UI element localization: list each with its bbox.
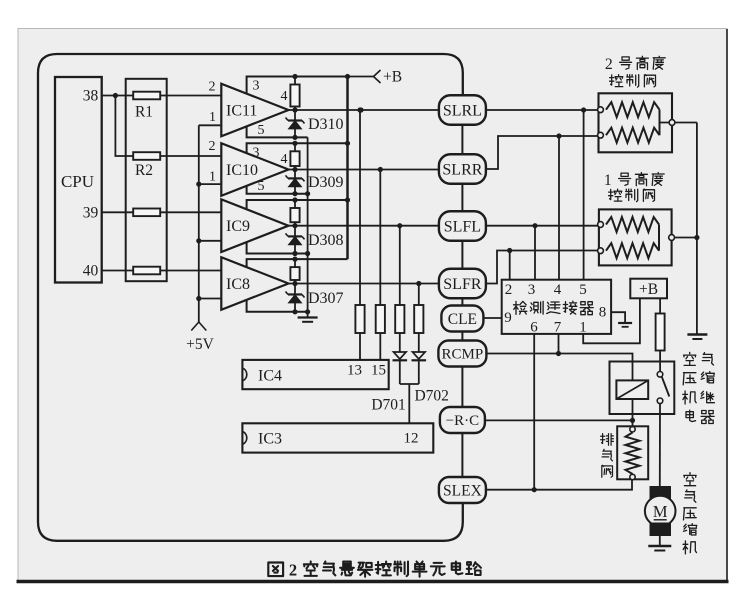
+B bus [346,77,349,260]
valve return line [696,123,698,335]
valve2 coil b [606,128,660,143]
IC10 pin2 label [209,139,216,154]
resistor network box [126,79,167,281]
wire pin6 down [533,334,535,490]
resistor col R15 [376,305,385,333]
IC10 supply box (pins 3/5) [247,143,348,193]
label +5V [186,336,214,353]
relay coil [616,380,648,399]
wire oval chain SLEX [461,433,463,477]
svg-text:1: 1 [604,172,612,189]
label 空气压缩机继电器 [683,352,715,423]
svg-text:IC3: IC3 [258,431,282,448]
junction IC11 output [292,107,297,112]
motor M [645,496,676,527]
wire pin7 down [558,334,560,354]
connector pin 2 label [505,282,513,298]
CPU label [61,172,94,191]
svg-text:R2: R2 [135,162,153,179]
wire pin38 down to R2 [115,96,133,157]
label D702 [414,388,448,405]
IC3 pin12 label [404,431,419,447]
junction IC10 output [292,167,297,172]
svg-text:+B: +B [639,281,658,298]
junction IC11 diode anode [292,135,297,140]
op-amp IC10 [221,143,288,196]
IC9 supply box (pins 3/5) [247,200,348,254]
wire col D701col down [399,226,401,305]
connector pin 7 label [554,320,562,336]
junction +B bus IC9 [345,197,350,202]
svg-text:IC11: IC11 [226,103,257,120]
svg-text:9: 9 [504,310,512,326]
wire +5V to IC11 in- [199,124,222,126]
svg-text:+5V: +5V [186,336,214,353]
svg-text:5: 5 [258,123,265,138]
wire relay to motor [659,404,661,486]
valve 1号高度控制阀 box [599,209,672,265]
svg-text:IC8: IC8 [226,276,250,293]
exhaust valve terminal bottom [630,474,635,479]
svg-text:8: 8 [599,305,607,321]
svg-text:RCMP: RCMP [442,347,484,363]
connector pin 5 label [579,282,587,298]
wire pin1 to +B box [583,298,640,343]
junction IC9 output [292,223,297,228]
wire diode merge to IC3 pin12 [400,384,419,423]
valve2 coil join [659,110,661,136]
label +B (top) [383,69,402,86]
svg-text:13: 13 [347,363,362,379]
zener diode D307 [286,284,305,312]
svg-text:D309: D309 [308,174,344,191]
wire IC11 out to SLRL [289,109,439,111]
junction coil- / -R·C [630,418,635,423]
svg-text:12: 12 [404,431,419,447]
wire RCMP to relay coil [487,354,633,381]
svg-text:2: 2 [505,282,513,298]
wire R1 to IC11 in+ [160,95,221,97]
junction IC8 resistor top [292,257,297,262]
wire SLEX to ECU corner [461,502,463,504]
svg-text:IC9: IC9 [226,218,250,235]
+5V symbol [191,322,206,331]
resistor col D702col [414,305,423,333]
svg-text:4: 4 [554,282,562,298]
wire R2 to IC10 in+ [160,155,221,157]
label 2号高度 [605,56,665,73]
wire col R13 down [359,110,361,305]
wire relay coil down [632,399,634,428]
svg-text:3: 3 [253,79,260,94]
connector pin 8 label [599,305,607,321]
svg-text:D701: D701 [371,397,405,414]
IC4 pin13 label [347,363,362,379]
caption 图2 空气悬架控制单元电路 [268,561,481,580]
svg-text:39: 39 [83,204,99,221]
IC9 pullup resistor (pin4) [290,200,299,226]
diode D701 [393,352,408,360]
node −R·C [440,407,485,433]
wire SLFL to valve1 [486,225,598,227]
IC11 pin2 label [209,80,216,95]
op-amp IC11 [221,84,288,137]
wire col to IC4 pin 15 [379,333,381,360]
label 控制阀 (valve1) [609,189,655,202]
label IC3 [258,431,282,448]
svg-text:4: 4 [281,89,288,104]
wire +5V to IC9 in- [199,240,222,242]
wire motor to ground [659,536,661,546]
wire col D702col down [418,284,420,306]
node +B box [630,279,667,299]
zener diode D309 [286,170,305,194]
junction pin7-RCMP [556,351,561,356]
wire pin4 up [558,136,560,280]
valve1 terminal a [598,222,604,228]
svg-text:D308: D308 [308,232,344,249]
zener diode D308 [286,226,305,254]
svg-text:SLEX: SLEX [443,482,482,499]
label D307 [308,290,344,307]
svg-text:7: 7 [554,320,562,336]
label R1 [135,104,153,121]
svg-text:2: 2 [209,80,216,95]
IC11 pin1 label [209,110,216,125]
IC10 pullup resistor (pin4) [290,143,299,169]
svg-text:D702: D702 [414,388,448,405]
wire pin3 up [534,226,536,280]
ground symbol (valves) [687,335,707,340]
wire pin38 to R1 [102,95,134,97]
svg-text:CPU: CPU [61,172,94,191]
IC10 pin4 label [281,152,288,167]
junction IC8 diode anode [292,309,297,314]
relay switch [657,372,669,404]
junction valve1 return [694,235,699,240]
wire R3 to IC9 in+ [160,211,221,213]
svg-text:R1: R1 [135,104,153,121]
wire +5V to IC8 in- [199,298,222,300]
svg-text:40: 40 [83,263,99,280]
svg-text:15: 15 [371,363,386,379]
junction IC11 resistor top [292,74,297,79]
ground symbol (motor) [648,546,671,551]
valve1 coil join [658,225,660,251]
node RCMP [438,341,486,367]
exhaust valve coil [626,433,640,475]
svg-text:1: 1 [209,110,216,125]
resistor col D701col [395,305,404,333]
wire oval chain RCMP [461,332,463,341]
label 控制阀 (valve2) [610,75,656,88]
exhaust valve 排气阀 box [617,426,648,479]
wire col4 to D702 [418,333,420,352]
junction IC8 output [292,281,297,286]
wire +B to relay resistor [659,298,661,313]
+B stub arrow [348,70,381,83]
label 排气阀 [601,434,614,478]
wire resistor to relay switch [659,351,661,372]
IC11 pin3 label [253,79,260,94]
exhaust valve terminal top [630,427,635,432]
svg-text:SLFL: SLFL [444,218,481,235]
svg-text:M: M [653,502,668,521]
ECU block outline [38,54,463,541]
junction pin2-SLFR [507,248,512,253]
connector label 检测连接器 [514,301,594,315]
ground symbol (pin8) [618,323,632,327]
svg-text:6: 6 [530,320,538,336]
IC8 pullup resistor (pin4) [290,259,299,283]
junction IC9 resistor top [292,197,297,202]
svg-text:SLRR: SLRR [442,161,482,178]
junction SLRL col [358,107,363,112]
svg-text:CLE: CLE [448,311,477,328]
node SLEX [439,477,486,503]
+5V rail [198,125,200,323]
resistor col R13 [355,305,364,333]
node SLRL [439,95,486,125]
op-amp IC9 [221,199,288,252]
svg-text:2: 2 [605,56,613,73]
resistor R4 (pin40) [133,267,160,275]
svg-text:5: 5 [258,179,265,194]
valve1 terminal b [598,248,604,254]
junction col R13 top [357,107,362,112]
svg-text:SLRL: SLRL [443,102,482,119]
IC11 pin5 label [258,123,265,138]
wire R4 to IC8 in+ [160,270,221,272]
label IC4 [258,367,282,384]
wire oval chain −R·C [461,367,463,408]
wire D702 down [418,360,420,384]
connector pin 6 label [530,320,538,336]
connector pin 9 label [504,310,512,326]
label 空气压缩机 [683,473,697,554]
junction +B bus IC10 [345,141,350,146]
svg-text:3: 3 [253,145,260,160]
wire col R15 down [379,170,381,306]
junction IC9 diode anode [292,251,297,256]
wire IC8 out to SLFR [289,283,439,285]
junction col D702col top [416,281,421,286]
svg-text:2: 2 [289,561,297,580]
svg-text:+B: +B [383,69,402,86]
junction ground bus IC8 [305,309,310,314]
wire pin8 to ground [611,312,625,322]
wire -R·C line [485,419,633,421]
resistor R3 (pin39) [133,209,160,217]
node SLFL [439,211,486,241]
junction ground bus IC10 [305,191,310,196]
junction pin6-SLEX [532,487,537,492]
svg-text:D307: D307 [308,290,344,307]
wire pin39 to R3 [102,211,134,213]
junction IC10 resistor top [292,141,297,146]
IC11 pin4 label [281,89,288,104]
junction pin5-SLRL [581,107,586,112]
motor terminal top [650,486,672,500]
node SLFR [439,269,486,299]
svg-text:5: 5 [579,282,587,298]
IC10 pin1 label [209,170,216,185]
IC3 box [242,423,433,452]
node CLE [441,306,483,332]
wire valve2 out [660,122,697,124]
connector pin 1 label [579,320,587,336]
junction pin3-SLFL [532,223,537,228]
svg-text:−R·C: −R·C [446,413,479,429]
svg-text:2: 2 [209,139,216,154]
junction IC10 diode anode [292,191,297,196]
svg-text:D310: D310 [308,116,344,133]
motor terminal bottom [650,523,672,537]
label D701 [371,397,405,414]
wire CLE to pin9 [483,317,502,319]
pin 38 label [83,88,99,105]
valve1 coil b [606,243,659,258]
junction col D701col top [397,223,402,228]
op-amp IC8 [221,257,288,310]
valve2 terminal b [598,132,604,138]
svg-text:1: 1 [209,170,216,185]
wire valve1 out [675,237,697,239]
IC4 box [242,360,388,389]
svg-text:3: 3 [528,282,536,298]
pin 39 label [83,204,99,221]
CPU box [55,77,102,283]
wire col to IC4 pin 13 [359,333,361,360]
junction IC9 in- [196,238,201,243]
valve1 coil a [606,217,659,232]
junction ground bus IC9 [305,251,310,256]
junction col R15 top [378,167,383,172]
wire IC9 out to SLFL [289,225,439,227]
svg-text:38: 38 [83,88,99,105]
wire oval chain SLRR [461,125,463,155]
svg-text:4: 4 [281,152,288,167]
zener diode D310 [286,110,305,137]
label D308 [308,232,344,249]
svg-text:1: 1 [579,320,587,336]
valve2 coil a [606,102,660,117]
IC11 pullup resistor (pin4) [290,77,299,111]
wire pin40 to R4 [102,270,134,272]
junction +B bus top [345,74,350,79]
wire SLEX line [486,480,632,490]
label R2 [135,162,153,179]
connector pin 3 label [528,282,536,298]
svg-text:IC10: IC10 [226,162,258,179]
junction pin38 [113,93,118,98]
connector pin 4 label [554,282,562,298]
label 1号高度 [604,172,664,189]
wire oval chain CLE [461,298,463,305]
resistor R1 [133,92,160,100]
resistor R2 [133,152,160,160]
wire oval chain SLFR [461,241,463,269]
valve 2号高度控制阀 box [599,93,673,152]
valve2 terminal out [669,120,675,126]
label D309 [308,174,344,191]
wire SLFR to valve1 [486,251,598,284]
wire SLRL to valve2 [486,109,598,111]
wire D701 down [399,360,401,384]
node SLRR [439,154,486,184]
valve2 terminal a [598,107,604,113]
diode ground bus [307,137,309,317]
svg-text:IC4: IC4 [258,367,282,384]
IC4 pin15 label [371,363,386,379]
resistor (relay feed) [656,314,665,351]
label D310 [308,116,344,133]
IC10 pin5 label [258,179,265,194]
wire col3 to D701 [399,333,401,352]
diode D702 [412,352,427,360]
detection connector box 检测连接器 [502,280,611,334]
wire +5V to IC10 in- [199,183,222,185]
wire pin5 up [583,110,585,280]
ground symbol (diodes) [298,318,318,322]
IC8 supply box (pins 3/5) [247,259,348,312]
svg-text:SLFR: SLFR [443,276,482,293]
IC11 supply box (pins 3/5) [247,77,348,138]
junction IC10 in- [196,182,201,187]
valve1 terminal out [669,235,675,241]
junction IC8 in- [196,296,201,301]
relay 空气压缩机继电器 box [610,362,675,415]
wire pin2 up [509,251,511,280]
junction pin4-SLRR [556,133,561,138]
wire oval chain SLFL [461,184,463,212]
IC10 pin3 label [253,145,260,160]
wire IC10 out to SLRR [289,169,439,171]
wire SLRR to valve2 [486,136,598,169]
pin 40 label [83,263,99,280]
